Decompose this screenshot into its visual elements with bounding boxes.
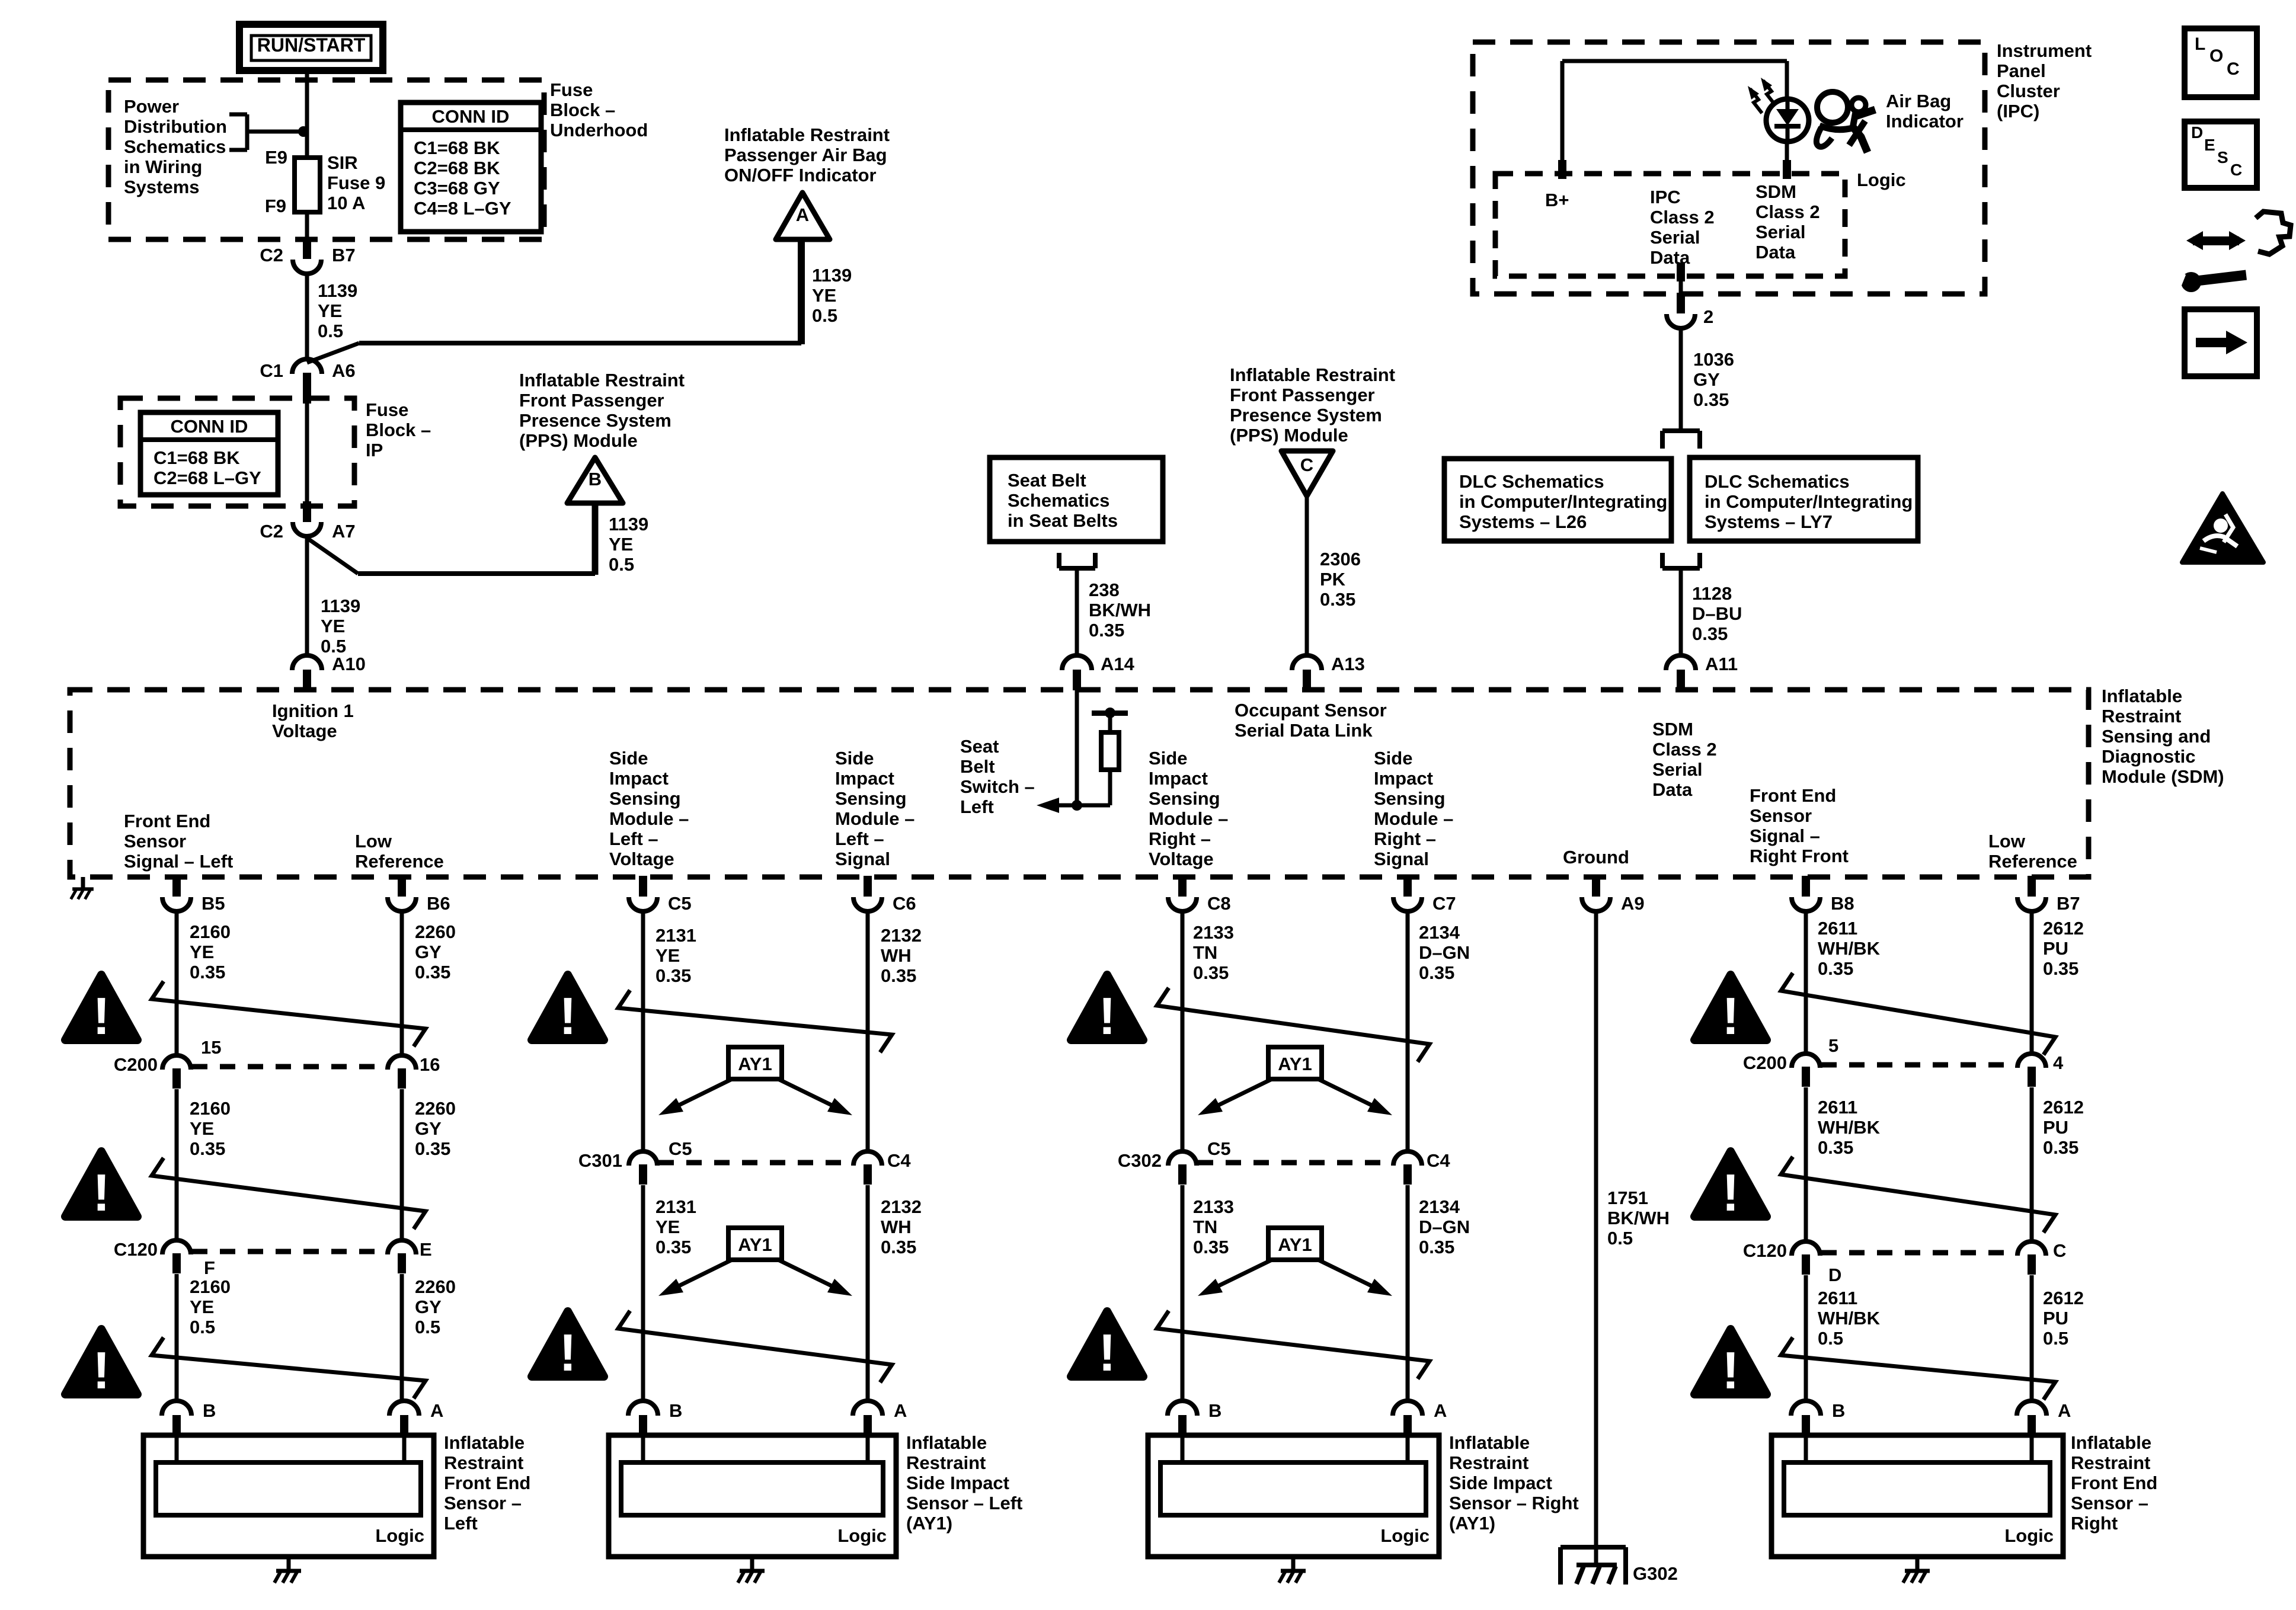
svg-text:Block –: Block –: [366, 420, 431, 440]
label C120 right: [1743, 1240, 1787, 1261]
svg-text:C302: C302: [1118, 1150, 1162, 1171]
svg-text:0.35: 0.35: [1693, 389, 1729, 410]
label 5: [1828, 1035, 1838, 1056]
wire 2611 WH/BK seg3: [1804, 1275, 1808, 1403]
wire 2160 YE seg1: [175, 911, 179, 1057]
svg-text:(AY1): (AY1): [1449, 1513, 1495, 1534]
svg-text:Systems: Systems: [124, 177, 200, 197]
svg-text:Serial: Serial: [1650, 227, 1700, 248]
svg-text:2134: 2134: [1419, 922, 1460, 943]
svg-text:A: A: [430, 1400, 443, 1421]
svg-text:Class 2: Class 2: [1652, 739, 1717, 760]
label B8: [1831, 893, 1854, 914]
svg-text:Side: Side: [1374, 748, 1412, 769]
svg-text:C8: C8: [1207, 893, 1231, 914]
svg-text:15: 15: [201, 1037, 221, 1058]
svg-text:Sensing and: Sensing and: [2102, 726, 2211, 747]
svg-text:E: E: [2204, 136, 2215, 154]
connector 2 IPC: [1667, 293, 1695, 328]
label 2260 GY 0.5: [415, 1276, 456, 1337]
wire RUN/START to fuse E9: [305, 71, 309, 158]
label wire 2306 PK 0.35: [1320, 549, 1361, 610]
svg-text:Schematics: Schematics: [124, 136, 226, 157]
svg-text:C: C: [1300, 454, 1313, 475]
svg-text:Presence System: Presence System: [1230, 405, 1382, 425]
svg-text:GY: GY: [415, 942, 442, 962]
svg-text:Ground: Ground: [1563, 847, 1629, 868]
svg-text:Sensor –: Sensor –: [2071, 1493, 2148, 1513]
label C4 splice left: [887, 1150, 911, 1171]
svg-text:(IPC): (IPC): [1997, 101, 2039, 121]
svg-text:in Computer/Integrating: in Computer/Integrating: [1705, 491, 1913, 512]
svg-text:Logic: Logic: [375, 1525, 424, 1546]
svg-text:A10: A10: [332, 654, 366, 674]
svg-text:L: L: [2195, 34, 2205, 54]
wire 2612 PU seg2: [2030, 1087, 2034, 1243]
twisted pair mark pair4 row2: [1781, 1157, 2055, 1233]
svg-text:Low: Low: [1988, 831, 2026, 852]
CONN ID table IP: [140, 412, 278, 495]
svg-text:YE: YE: [190, 942, 214, 962]
tick B+ pin: [1558, 160, 1566, 179]
svg-text:10 A: 10 A: [327, 193, 365, 213]
connector C8 SDM: [1168, 876, 1197, 911]
svg-text:A9: A9: [1621, 893, 1645, 914]
connector B inflatable restraint front end sensor right: [1791, 1401, 1821, 1436]
svg-text:Presence System: Presence System: [519, 410, 671, 431]
svg-text:C5: C5: [1207, 1138, 1231, 1159]
connector A14 SDM: [1062, 655, 1092, 690]
svg-text:D–GN: D–GN: [1419, 1217, 1470, 1237]
label F: [204, 1257, 215, 1278]
svg-text:0.35: 0.35: [1193, 962, 1229, 983]
label wire 238 BK/WH 0.35: [1089, 580, 1151, 641]
dashed link C302: [1198, 1160, 1392, 1166]
svg-text:Data: Data: [1652, 779, 1693, 800]
svg-text:C: C: [2053, 1240, 2066, 1261]
svg-text:Panel: Panel: [1997, 60, 2046, 81]
svg-text:Module –: Module –: [835, 808, 914, 829]
label Side Impact Sensing Module Right Voltage: [1149, 748, 1228, 869]
label 2611 WH/BK 0.35 b: [1818, 1097, 1881, 1158]
svg-text:Inflatable: Inflatable: [2071, 1432, 2151, 1453]
svg-text:1036: 1036: [1693, 349, 1734, 370]
svg-text:Voltage: Voltage: [272, 721, 337, 741]
svg-text:Module –: Module –: [609, 808, 689, 829]
svg-text:!: !: [92, 987, 110, 1045]
svg-text:C2: C2: [260, 245, 283, 265]
svg-text:Sensing: Sensing: [609, 788, 681, 809]
svg-text:F9: F9: [265, 196, 286, 216]
warning triangle pair4 row3: [1694, 1329, 1767, 1400]
svg-text:Sensor – Right: Sensor – Right: [1449, 1493, 1579, 1513]
connector C1 A6 fuse block IP: [292, 359, 322, 404]
svg-text:B: B: [589, 469, 602, 489]
svg-text:!: !: [92, 1163, 110, 1222]
label C5 splice right: [1207, 1138, 1231, 1159]
connector C200 pin 5: [1792, 1054, 1820, 1087]
svg-text:Systems – LY7: Systems – LY7: [1705, 511, 1833, 532]
label PPS module left: [519, 370, 685, 451]
svg-text:C5: C5: [668, 893, 692, 914]
svg-text:Restraint: Restraint: [1449, 1452, 1528, 1473]
label 2: [1703, 306, 1713, 327]
svg-text:1128: 1128: [1692, 583, 1732, 604]
connector C5 SDM: [629, 876, 657, 911]
svg-text:Power: Power: [124, 96, 179, 117]
svg-text:Diagnostic: Diagnostic: [2102, 746, 2195, 767]
wire 2133 TN seg1: [1181, 911, 1185, 1152]
svg-text:0.35: 0.35: [415, 1138, 450, 1159]
svg-text:!: !: [559, 1323, 576, 1382]
label A pin: [2058, 1400, 2071, 1421]
svg-text:WH/BK: WH/BK: [1818, 1308, 1881, 1329]
twisted pair mark pair1 row2: [152, 1158, 426, 1229]
svg-text:Module –: Module –: [1149, 808, 1228, 829]
svg-text:0.5: 0.5: [415, 1317, 440, 1337]
svg-text:Signal: Signal: [1374, 849, 1429, 869]
wire 1128 D-BU to A11: [1679, 568, 1683, 656]
label E: [420, 1239, 432, 1260]
connector C301 pin C5: [629, 1151, 657, 1185]
svg-text:Cluster: Cluster: [1997, 81, 2060, 101]
svg-text:2132: 2132: [881, 1196, 922, 1217]
svg-text:0.5: 0.5: [190, 1317, 215, 1337]
label 2612 PU 0.35 a: [2043, 918, 2084, 979]
label 2160 YE 0.35 a: [190, 921, 231, 982]
label Seat Belt Switch Left: [960, 736, 1035, 817]
wire 2132 WH seg1: [866, 911, 870, 1152]
svg-text:C2: C2: [260, 521, 283, 542]
wire 2260 GY seg1: [400, 911, 404, 1057]
label 4: [2053, 1052, 2064, 1073]
label G302: [1633, 1563, 1678, 1584]
svg-text:5: 5: [1828, 1035, 1838, 1056]
wire LED to logic box: [1785, 141, 1789, 174]
CONN ID table underhood: [401, 103, 541, 232]
label A11: [1705, 654, 1738, 674]
svg-text:Front End: Front End: [444, 1473, 530, 1493]
bracket below DLC boxes: [1662, 553, 1700, 568]
svg-text:YE: YE: [655, 945, 680, 966]
air bag indicator person icon: [1817, 92, 1875, 152]
connector B5 SDM: [162, 876, 191, 911]
wire 1139 YE to SDM A10: [305, 536, 309, 656]
svg-text:A7: A7: [332, 521, 356, 542]
svg-text:Side: Side: [835, 748, 874, 769]
RUN/START ignition voltage tag: [239, 24, 383, 71]
svg-text:Module –: Module –: [1374, 808, 1453, 829]
label Low Reference left: [355, 831, 444, 872]
connector A13 SDM: [1292, 655, 1322, 690]
wire IPC pin 2: [1679, 276, 1683, 293]
wire 2612 PU seg1: [2030, 911, 2034, 1055]
svg-text:SDM: SDM: [1652, 719, 1693, 740]
label Side Impact Sensing Module Left Voltage: [609, 748, 689, 869]
junction dot on ignition feed: [298, 126, 309, 137]
svg-text:(AY1): (AY1): [906, 1513, 952, 1534]
svg-text:IP: IP: [366, 440, 383, 460]
svg-text:Fuse: Fuse: [550, 79, 593, 100]
label C5 splice: [669, 1138, 692, 1159]
label Logic IPC: [1857, 169, 1906, 190]
bracket below seat belt box: [1059, 553, 1095, 568]
label A13: [1331, 654, 1365, 674]
svg-text:2133: 2133: [1193, 922, 1234, 943]
connector A11 SDM: [1666, 655, 1696, 690]
svg-text:C7: C7: [1432, 893, 1456, 914]
ground rake at SDM corner: [71, 877, 94, 899]
svg-text:Front End: Front End: [2071, 1473, 2157, 1493]
svg-text:2306: 2306: [1320, 549, 1361, 569]
icon forward arrow box: [2185, 309, 2257, 376]
svg-text:Serial: Serial: [1652, 759, 1702, 780]
label Front End Sensor Signal Right Front: [1750, 785, 1849, 866]
svg-text:D–BU: D–BU: [1692, 603, 1742, 624]
svg-text:B: B: [669, 1400, 682, 1421]
off-page triangle C PPS module: [1281, 451, 1333, 496]
svg-text:PU: PU: [2043, 1308, 2068, 1329]
svg-text:1139: 1139: [318, 280, 357, 301]
svg-text:O: O: [2209, 46, 2223, 66]
wire 2260 GY seg3: [400, 1274, 404, 1403]
connector C120 pin E: [388, 1240, 416, 1273]
label Ignition 1 Voltage: [272, 700, 354, 741]
label Side Impact Sensing Module Left Signal: [835, 748, 914, 869]
svg-text:0.35: 0.35: [1419, 1237, 1454, 1257]
module box inflatable restraint side impact sensor left AY1: [609, 1435, 896, 1557]
svg-text:C1: C1: [260, 360, 283, 381]
connector C120 pin F: [162, 1240, 191, 1273]
svg-text:Low: Low: [355, 831, 392, 852]
label C120 left: [114, 1239, 158, 1260]
wire 2160 YE seg3: [175, 1274, 179, 1403]
tick IPC inner pin: [1677, 263, 1685, 281]
svg-text:Sensor: Sensor: [124, 831, 186, 852]
label 2160 YE 0.5: [190, 1276, 231, 1337]
svg-text:Module (SDM): Module (SDM): [2102, 766, 2224, 787]
label wire 1139 YE 0.5 at A: [812, 265, 852, 326]
wire 2131 YE seg1: [641, 911, 645, 1152]
label 2612 PU 0.5: [2043, 1288, 2084, 1349]
svg-text:B+: B+: [1545, 190, 1569, 210]
off-page triangle B PPS module: [567, 457, 623, 503]
instrument panel cluster dashed box: [1473, 42, 1985, 294]
svg-text:Logic: Logic: [2004, 1525, 2054, 1546]
splice AY1 lower left: [658, 1228, 852, 1296]
label Ground: [1563, 847, 1629, 868]
SDM dashed box: [70, 690, 2089, 877]
svg-text:Inflatable Restraint: Inflatable Restraint: [724, 124, 890, 145]
off-page triangle A passenger air bag indicator: [776, 193, 830, 239]
label B7: [2057, 893, 2080, 914]
svg-text:0.35: 0.35: [881, 965, 916, 986]
label 16: [420, 1054, 440, 1075]
svg-text:0.35: 0.35: [1692, 623, 1728, 644]
label A7: [332, 521, 356, 542]
label 2160 YE 0.35 b: [190, 1098, 231, 1159]
svg-text:Restraint: Restraint: [2071, 1452, 2150, 1473]
svg-text:2260: 2260: [415, 1098, 456, 1119]
svg-text:238: 238: [1089, 580, 1120, 600]
svg-text:Front Passenger: Front Passenger: [1230, 385, 1375, 405]
twisted pair mark pair3 row1: [1157, 988, 1430, 1062]
svg-text:Inflatable Restraint: Inflatable Restraint: [1230, 364, 1395, 385]
label wire 1139 YE 0.5 at B: [609, 514, 648, 575]
warning triangle pair4 row2: [1694, 1151, 1767, 1222]
label 2132 WH 0.35 b: [881, 1196, 922, 1257]
svg-text:A: A: [894, 1400, 907, 1421]
label C6: [893, 893, 916, 914]
label F9: [265, 196, 286, 216]
svg-text:0.5: 0.5: [2043, 1328, 2068, 1349]
connector A9 SDM: [1582, 876, 1610, 911]
svg-text:Inflatable: Inflatable: [2102, 686, 2182, 706]
svg-text:Right: Right: [2071, 1513, 2118, 1534]
label E9: [265, 147, 287, 168]
svg-text:Left –: Left –: [609, 828, 658, 849]
svg-text:2132: 2132: [881, 925, 922, 946]
svg-text:Schematics: Schematics: [1008, 490, 1109, 511]
air bag indicator LED: [1766, 99, 1809, 142]
svg-text:B: B: [1832, 1400, 1845, 1421]
svg-text:4: 4: [2053, 1052, 2064, 1073]
wire 1036 GY: [1679, 328, 1683, 431]
label 15: [201, 1037, 221, 1058]
wire 2611 WH/BK seg2: [1804, 1087, 1808, 1243]
svg-text:Instrument: Instrument: [1997, 40, 2092, 61]
svg-text:(PPS) Module: (PPS) Module: [1230, 425, 1348, 446]
svg-text:2133: 2133: [1193, 1196, 1234, 1217]
label A6: [332, 360, 356, 381]
svg-text:C301: C301: [578, 1150, 622, 1171]
svg-text:0.35: 0.35: [2043, 1137, 2078, 1158]
svg-text:Left: Left: [444, 1513, 478, 1534]
svg-text:E9: E9: [265, 147, 287, 168]
label B7: [332, 245, 356, 265]
svg-text:AY1: AY1: [738, 1234, 772, 1255]
svg-text:Indicator: Indicator: [1886, 111, 1964, 132]
svg-text:BK/WH: BK/WH: [1089, 600, 1151, 620]
svg-text:!: !: [1722, 1163, 1739, 1222]
svg-text:Systems – L26: Systems – L26: [1459, 511, 1587, 532]
label A10: [332, 654, 366, 674]
svg-text:C1=68 BK: C1=68 BK: [414, 137, 500, 158]
IPC logic dashed box: [1495, 174, 1845, 276]
svg-text:1139: 1139: [609, 514, 648, 534]
svg-text:1751: 1751: [1607, 1188, 1648, 1208]
wire through fuse block IP: [305, 404, 309, 501]
svg-text:B: B: [1208, 1400, 1221, 1421]
connector A inflatable restraint front end sensor right: [2017, 1401, 2046, 1436]
svg-text:2260: 2260: [415, 921, 456, 942]
connector A inflatable restraint side impact sensor right AY1: [1393, 1401, 1422, 1436]
svg-text:0.5: 0.5: [1818, 1328, 1843, 1349]
svg-text:B8: B8: [1831, 893, 1854, 914]
svg-text:0.35: 0.35: [190, 962, 225, 982]
svg-text:ON/OFF Indicator: ON/OFF Indicator: [724, 165, 877, 185]
label A pin: [1434, 1400, 1447, 1421]
connector B6 SDM: [388, 876, 416, 911]
svg-text:Right Front: Right Front: [1750, 846, 1849, 866]
bracket above DLC boxes: [1662, 431, 1700, 449]
svg-text:Logic: Logic: [1857, 169, 1906, 190]
svg-text:!: !: [559, 987, 576, 1045]
svg-text:F: F: [204, 1257, 215, 1278]
wire 2132 WH seg2: [866, 1185, 870, 1403]
wire 1139 YE segment B7 to C1: [305, 274, 309, 360]
wire 2134 D-GN seg2: [1406, 1185, 1410, 1403]
connector C200 pin 15: [162, 1055, 191, 1089]
label 2134 D-GN 0.35 b: [1419, 1196, 1470, 1257]
svg-text:Sensing: Sensing: [1149, 788, 1220, 809]
dashed link C120 right: [1821, 1250, 2016, 1256]
label SIR Fuse 9 10 A: [327, 152, 385, 213]
label B pin: [203, 1400, 216, 1421]
module box inflatable restraint front end sensor left: [143, 1435, 434, 1557]
svg-text:Sensing: Sensing: [835, 788, 907, 809]
label Fuse Block IP: [366, 399, 431, 460]
label 2131 YE 0.35 a: [655, 925, 696, 986]
svg-text:WH: WH: [881, 945, 912, 966]
svg-text:2611: 2611: [1818, 918, 1857, 939]
svg-text:2611: 2611: [1818, 1288, 1857, 1308]
svg-text:16: 16: [420, 1054, 440, 1075]
svg-text:Restraint: Restraint: [906, 1452, 986, 1473]
connector C302 pin C5: [1168, 1151, 1197, 1185]
twisted pair mark pair2 row1: [618, 990, 892, 1052]
svg-text:Seat Belt: Seat Belt: [1008, 470, 1086, 491]
wire 238 BK/WH to A14: [1075, 568, 1079, 656]
svg-text:Signal –: Signal –: [1750, 825, 1820, 846]
svg-text:SDM: SDM: [1755, 181, 1796, 202]
svg-text:Inflatable Restraint: Inflatable Restraint: [519, 370, 685, 391]
connector B inflatable restraint front end sensor left: [162, 1401, 191, 1436]
label wire 1139 YE 0.5 upper: [318, 280, 357, 341]
svg-text:in Seat Belts: in Seat Belts: [1008, 510, 1118, 531]
connector C6 SDM: [853, 876, 882, 911]
svg-text:G302: G302: [1633, 1563, 1678, 1584]
tick SDM serial pin: [1783, 160, 1791, 179]
svg-text:Left: Left: [960, 796, 994, 817]
label C2: [260, 245, 283, 265]
svg-text:Voltage: Voltage: [1149, 849, 1214, 869]
svg-text:0.5: 0.5: [318, 321, 343, 341]
svg-text:C: C: [2227, 59, 2240, 79]
fuse block underhood dashed box: [108, 80, 544, 239]
connector C302 pin C4: [1393, 1151, 1422, 1185]
label C5: [668, 893, 692, 914]
svg-text:Impact: Impact: [609, 768, 669, 789]
svg-text:2131: 2131: [655, 1196, 696, 1217]
warning triangle pair2 row1: [532, 975, 604, 1045]
svg-text:in Computer/Integrating: in Computer/Integrating: [1459, 491, 1667, 512]
label wire 1139 YE 0.5 above A10: [321, 596, 360, 657]
svg-text:2612: 2612: [2043, 1097, 2084, 1118]
wire 2133 TN seg2: [1181, 1185, 1185, 1403]
wire B+ feed up and over: [1562, 61, 1787, 174]
label B pin: [1832, 1400, 1845, 1421]
label C7: [1432, 893, 1456, 914]
label B+: [1545, 190, 1569, 210]
connector B inflatable restraint side impact sensor left AY1: [628, 1401, 658, 1436]
label 2134 D-GN 0.35 a: [1419, 922, 1470, 983]
svg-text:C4: C4: [887, 1150, 911, 1171]
svg-text:Sensor –: Sensor –: [444, 1493, 522, 1513]
label wire 1751 BK/WH 0.5: [1607, 1188, 1670, 1249]
ground inflatable restraint front end sensor left: [274, 1557, 301, 1583]
label 2611 WH/BK 0.5: [1818, 1288, 1881, 1349]
